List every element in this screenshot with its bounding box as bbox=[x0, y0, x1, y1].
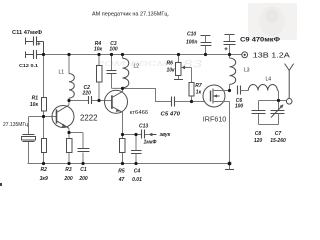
svg-text:C9 470мкФ: C9 470мкФ bbox=[240, 38, 280, 44]
svg-text:100: 100 bbox=[235, 103, 244, 109]
svg-text:C8: C8 bbox=[255, 131, 262, 137]
svg-text:47: 47 bbox=[118, 177, 125, 183]
svg-text:200: 200 bbox=[63, 176, 73, 182]
svg-text:звук: звук bbox=[160, 132, 171, 138]
svg-text:0.01: 0.01 bbox=[132, 177, 142, 183]
svg-text:R7: R7 bbox=[195, 83, 202, 89]
svg-text:C13: C13 bbox=[139, 123, 148, 129]
svg-text:L2: L2 bbox=[134, 64, 140, 70]
svg-text:27.135МГц: 27.135МГц bbox=[3, 122, 28, 128]
svg-text:C11 47мкФ: C11 47мкФ bbox=[12, 30, 43, 36]
svg-text:10к: 10к bbox=[94, 47, 103, 53]
svg-text:10к: 10к bbox=[167, 67, 176, 73]
svg-text:кт6466: кт6466 bbox=[130, 110, 149, 116]
svg-text:83: 83 bbox=[183, 59, 203, 71]
svg-text:C4: C4 bbox=[134, 169, 141, 175]
svg-text:АМ передатчик на 27.135МГц.: АМ передатчик на 27.135МГц. bbox=[92, 12, 169, 18]
svg-text:R5: R5 bbox=[118, 169, 125, 175]
svg-text:120: 120 bbox=[254, 138, 263, 144]
svg-text:220: 220 bbox=[82, 90, 92, 96]
svg-text:C5 470: C5 470 bbox=[161, 112, 181, 118]
svg-text:R1: R1 bbox=[32, 96, 39, 102]
svg-text:1к: 1к bbox=[196, 90, 202, 96]
svg-text:13В 1.2А: 13В 1.2А bbox=[253, 50, 290, 59]
svg-text:2222: 2222 bbox=[80, 114, 98, 123]
svg-text:C1: C1 bbox=[80, 167, 87, 173]
svg-text:L1: L1 bbox=[59, 70, 65, 76]
svg-text:100n: 100n bbox=[186, 40, 197, 46]
svg-text:IRF610: IRF610 bbox=[203, 114, 227, 123]
svg-text:R6: R6 bbox=[167, 61, 174, 67]
svg-text:100: 100 bbox=[109, 47, 118, 53]
svg-text:R3: R3 bbox=[65, 167, 72, 173]
svg-text:1мкФ: 1мкФ bbox=[144, 139, 157, 145]
svg-text:C7: C7 bbox=[275, 131, 282, 137]
svg-text:L4: L4 bbox=[266, 77, 272, 83]
svg-text:C12 0.1: C12 0.1 bbox=[19, 63, 38, 69]
svg-text:C10: C10 bbox=[187, 31, 196, 37]
svg-text:3к9: 3к9 bbox=[40, 176, 48, 182]
svg-text:R2: R2 bbox=[40, 167, 47, 173]
svg-text:10к: 10к bbox=[30, 102, 39, 108]
svg-text:L3: L3 bbox=[244, 68, 250, 74]
svg-text:15-260: 15-260 bbox=[270, 138, 286, 144]
svg-text:200: 200 bbox=[78, 176, 88, 182]
